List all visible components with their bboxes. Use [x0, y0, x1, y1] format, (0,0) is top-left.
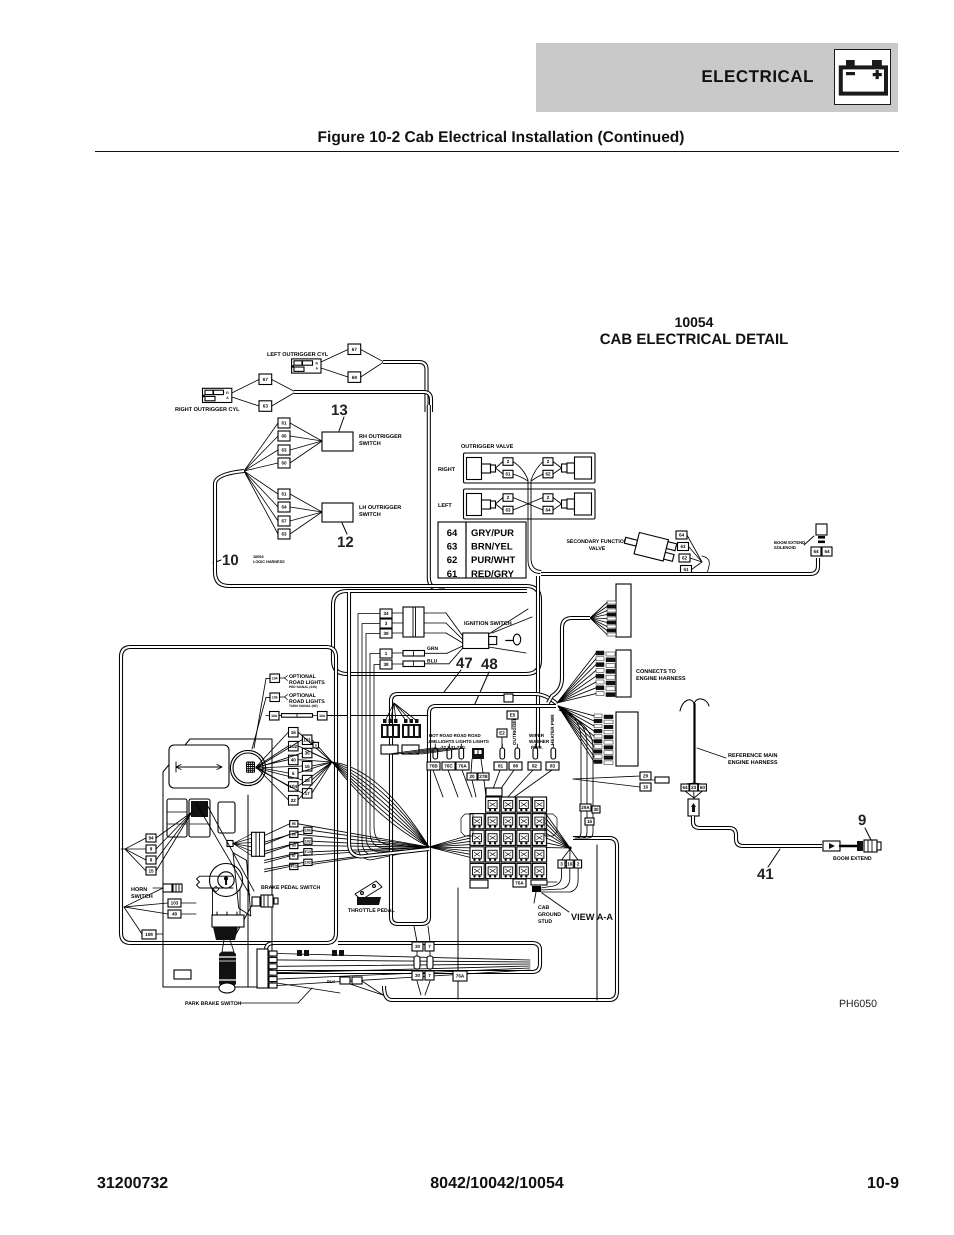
svg-text:RIGHT: RIGHT	[438, 467, 456, 473]
svg-text:HOT ROAD ROAD ROAD: HOT ROAD ROAD ROAD	[429, 733, 481, 738]
svg-text:GROUND: GROUND	[538, 912, 561, 918]
svg-text:LH OUTRIGGER: LH OUTRIGGER	[359, 505, 401, 511]
svg-text:2: 2	[547, 459, 550, 464]
svg-text:48: 48	[481, 656, 498, 673]
svg-text:8: 8	[150, 858, 153, 863]
svg-text:22: 22	[291, 798, 297, 803]
svg-text:LEFT OUTRIGGER CYL: LEFT OUTRIGGER CYL	[267, 352, 329, 358]
svg-text:20: 20	[469, 774, 475, 779]
svg-text:F13: F13	[305, 850, 311, 854]
svg-text:15: 15	[148, 869, 154, 874]
svg-text:40: 40	[291, 758, 297, 763]
svg-text:64: 64	[545, 508, 551, 513]
svg-text:16: 16	[643, 785, 649, 790]
svg-text:62: 62	[545, 472, 551, 477]
svg-text:2: 2	[507, 495, 510, 500]
svg-text:13: 13	[331, 402, 348, 419]
svg-text:HEATER PWR: HEATER PWR	[550, 714, 555, 745]
svg-text:30: 30	[415, 973, 421, 978]
svg-text:2: 2	[507, 459, 510, 464]
svg-text:105: 105	[272, 695, 278, 699]
svg-text:30: 30	[593, 807, 599, 812]
svg-text:TURN SIGNAL (NF): TURN SIGNAL (NF)	[289, 704, 318, 708]
svg-text:RH OUTRIGGER: RH OUTRIGGER	[359, 434, 402, 440]
svg-text:GRN: GRN	[427, 646, 439, 652]
svg-text:76A: 76A	[458, 764, 467, 769]
svg-text:THROTTLE PEDAL: THROTTLE PEDAL	[348, 908, 396, 914]
svg-text:16: 16	[305, 764, 311, 769]
svg-text:61: 61	[281, 421, 287, 426]
svg-text:REFERENCE MAIN: REFERENCE MAIN	[728, 753, 778, 759]
svg-text:63: 63	[281, 448, 287, 453]
svg-text:60: 60	[281, 461, 287, 466]
svg-text:63: 63	[281, 532, 287, 537]
svg-text:61: 61	[683, 567, 689, 572]
svg-text:E5: E5	[510, 713, 516, 718]
svg-text:102: 102	[305, 861, 311, 865]
svg-text:16A: 16A	[271, 714, 278, 718]
svg-text:64: 64	[447, 528, 458, 539]
svg-text:F13: F13	[291, 865, 297, 869]
svg-text:SECONDARY FUNCTION: SECONDARY FUNCTION	[566, 539, 627, 545]
svg-text:16: 16	[291, 730, 297, 735]
svg-text:67: 67	[352, 347, 358, 352]
svg-text:83: 83	[550, 764, 556, 769]
svg-text:0: 0	[315, 743, 317, 747]
svg-text:97: 97	[292, 854, 296, 858]
svg-text:CAB: CAB	[538, 905, 549, 911]
svg-text:94: 94	[148, 836, 154, 841]
svg-text:64: 64	[813, 549, 819, 554]
svg-text:OUTRIGGER: OUTRIGGER	[512, 716, 517, 745]
svg-text:62: 62	[447, 555, 458, 566]
svg-text:BOOM EXTEND: BOOM EXTEND	[833, 856, 872, 862]
svg-text:10: 10	[222, 552, 239, 569]
svg-text:ENGINE HARNESS: ENGINE HARNESS	[728, 760, 778, 766]
svg-text:CONNECTS TO: CONNECTS TO	[636, 669, 677, 675]
svg-text:67: 67	[281, 519, 287, 524]
svg-text:ENGINE HARNESS: ENGINE HARNESS	[636, 676, 686, 682]
svg-text:64: 64	[824, 549, 830, 554]
svg-text:LEFT: LEFT	[438, 503, 452, 509]
svg-text:SWITCH: SWITCH	[359, 441, 381, 447]
svg-text:30: 30	[415, 944, 421, 949]
svg-text:39: 39	[383, 631, 389, 636]
svg-text:BLK: BLK	[327, 979, 335, 984]
svg-text:67: 67	[263, 377, 269, 382]
svg-text:10054: 10054	[675, 314, 714, 330]
svg-text:12: 12	[337, 534, 354, 551]
svg-text:3: 3	[560, 862, 563, 867]
svg-text:38: 38	[383, 662, 389, 667]
svg-text:60: 60	[700, 785, 706, 790]
svg-text:95: 95	[292, 822, 296, 826]
svg-text:LOGIC HARNESS: LOGIC HARNESS	[253, 560, 285, 564]
svg-text:64: 64	[679, 533, 685, 538]
svg-text:82: 82	[532, 764, 538, 769]
svg-text:64: 64	[281, 505, 287, 510]
svg-text:PARK BRAKE SWITCH: PARK BRAKE SWITCH	[185, 1001, 241, 1007]
svg-text:68: 68	[352, 375, 358, 380]
svg-text:49: 49	[172, 912, 178, 917]
svg-text:23: 23	[691, 785, 697, 790]
svg-text:63: 63	[505, 508, 511, 513]
svg-text:27B: 27B	[479, 774, 488, 779]
svg-text:WASHER: WASHER	[529, 739, 550, 744]
svg-text:SWITCH: SWITCH	[359, 512, 381, 518]
svg-text:7: 7	[428, 973, 431, 978]
svg-text:64: 64	[682, 785, 688, 790]
svg-text:63: 63	[680, 544, 686, 549]
svg-text:PED SIGNAL (24S): PED SIGNAL (24S)	[289, 685, 317, 689]
svg-text:VALVE: VALVE	[589, 546, 606, 552]
svg-text:61: 61	[447, 569, 458, 580]
svg-text:HORN: HORN	[131, 887, 147, 893]
svg-text:76C: 76C	[444, 764, 453, 769]
svg-text:9: 9	[858, 812, 866, 829]
svg-text:2: 2	[577, 862, 580, 867]
svg-text:16: 16	[567, 862, 573, 867]
svg-text:76B: 76B	[429, 764, 438, 769]
svg-text:16: 16	[587, 819, 593, 824]
svg-text:GRY/PUR: GRY/PUR	[471, 528, 514, 539]
svg-text:29A: 29A	[581, 805, 590, 810]
svg-text:63: 63	[263, 404, 269, 409]
svg-text:47: 47	[456, 655, 473, 672]
svg-text:61: 61	[281, 492, 287, 497]
svg-text:41: 41	[757, 866, 774, 883]
svg-text:102: 102	[305, 839, 311, 843]
svg-text:103: 103	[171, 901, 179, 906]
svg-text:OUTRIGGER VALVE: OUTRIGGER VALVE	[461, 444, 514, 450]
svg-text:7: 7	[428, 944, 431, 949]
svg-text:10054: 10054	[253, 555, 264, 559]
svg-text:6: 6	[292, 771, 295, 776]
svg-text:E2: E2	[499, 731, 505, 736]
svg-text:SOLENOID: SOLENOID	[774, 545, 796, 550]
svg-text:RED/GRY: RED/GRY	[471, 569, 515, 580]
svg-text:1: 1	[385, 651, 388, 656]
svg-text:62: 62	[682, 556, 688, 561]
svg-text:76A: 76A	[515, 881, 524, 886]
svg-text:88: 88	[513, 764, 519, 769]
svg-text:108: 108	[145, 932, 153, 937]
svg-text:81: 81	[498, 764, 504, 769]
svg-text:104: 104	[272, 676, 278, 680]
svg-text:76A: 76A	[456, 974, 465, 979]
svg-text:UMB.LIGHTS LIGHTS LIGHTS: UMB.LIGHTS LIGHTS LIGHTS	[427, 739, 489, 744]
svg-text:RIGHT OUTRIGGER CYL: RIGHT OUTRIGGER CYL	[175, 407, 240, 413]
svg-text:66: 66	[281, 434, 287, 439]
svg-text:61: 61	[505, 472, 511, 477]
svg-text:29: 29	[643, 774, 649, 779]
svg-text:PUR/WHT: PUR/WHT	[471, 555, 516, 566]
svg-text:WIPER: WIPER	[529, 733, 545, 738]
svg-text:VIEW A-A: VIEW A-A	[571, 912, 613, 922]
svg-text:BRAKE PEDAL SWITCH: BRAKE PEDAL SWITCH	[261, 885, 321, 891]
svg-text:STUD: STUD	[538, 919, 552, 925]
svg-text:2: 2	[547, 495, 550, 500]
svg-text:PH6050: PH6050	[839, 998, 877, 1010]
svg-text:3: 3	[385, 621, 388, 626]
svg-text:63: 63	[447, 542, 458, 553]
svg-text:16A: 16A	[319, 714, 326, 718]
svg-text:CAB ELECTRICAL DETAIL: CAB ELECTRICAL DETAIL	[600, 331, 789, 348]
svg-text:9: 9	[150, 847, 153, 852]
svg-text:105: 105	[305, 829, 311, 833]
svg-text:34: 34	[383, 611, 389, 616]
svg-text:BRN/YEL: BRN/YEL	[471, 542, 513, 553]
